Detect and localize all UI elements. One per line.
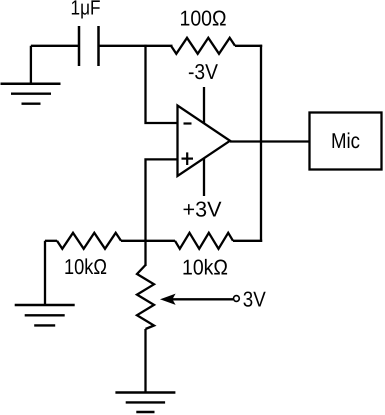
+3V power stub bbox=[203, 159, 205, 197]
ground (bottom) bbox=[115, 393, 175, 413]
wire node to potentiometer bbox=[144, 241, 146, 266]
op-amp U1 triangle bbox=[178, 106, 231, 177]
resistor R4 10k right zigzag bbox=[175, 233, 233, 249]
op-amp minus sign bbox=[184, 122, 192, 124]
wire from ground to capacitor left plate bbox=[31, 45, 79, 47]
svg-text:1μF: 1μF bbox=[71, 0, 101, 20]
svg-text:10kΩ: 10kΩ bbox=[64, 255, 107, 279]
wire between bottom resistors bbox=[121, 240, 175, 242]
wire node A down to inverting input bbox=[146, 45, 179, 123]
wire bottom left node to resistor bbox=[45, 240, 57, 242]
capacitor C1 plates bbox=[79, 26, 99, 66]
wire capacitor to node A and resistor 100 ohm bbox=[99, 45, 173, 47]
resistor R1 100ohm zigzag bbox=[171, 38, 235, 54]
wire right vertical feedback bus bbox=[260, 45, 262, 242]
wire resistor R1 to right vertical bus bbox=[235, 45, 262, 47]
op-amp plus sign bbox=[182, 152, 194, 165]
wiper arrow wire to 3V terminal bbox=[170, 298, 233, 300]
-3V power stub bbox=[203, 87, 205, 123]
resistor R2 10k left zigzag bbox=[57, 233, 121, 249]
wiper arrowhead bbox=[161, 295, 174, 304]
wire op-amp output to Mic bbox=[230, 140, 310, 142]
3V terminal circle bbox=[234, 296, 240, 302]
svg-text:-3V: -3V bbox=[188, 60, 219, 84]
potentiometer R3 vertical zigzag bbox=[137, 265, 154, 329]
svg-text:100Ω: 100Ω bbox=[180, 7, 227, 31]
Mic box bbox=[310, 113, 382, 170]
svg-text:10kΩ: 10kΩ bbox=[182, 255, 228, 279]
wire noninverting input branch bbox=[146, 159, 179, 242]
svg-text:+3V: +3V bbox=[183, 198, 223, 222]
wire potentiometer to ground bbox=[144, 329, 146, 393]
ground (bottom left) bbox=[15, 241, 75, 326]
wire resistor R4 to right vertical bus bbox=[233, 240, 262, 242]
svg-text:Mic: Mic bbox=[331, 129, 360, 153]
svg-text:3V: 3V bbox=[243, 288, 267, 312]
ground (top left) bbox=[1, 46, 61, 104]
